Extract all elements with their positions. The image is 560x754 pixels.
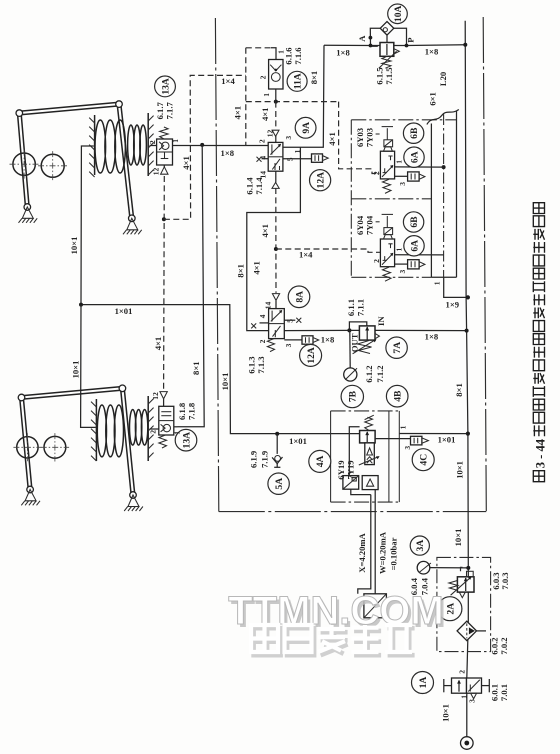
svg-text:10×1: 10×1 (71, 361, 81, 379)
svg-text:7Y04: 7Y04 (364, 215, 374, 235)
svg-text:6.1.9: 6.1.9 (249, 451, 259, 468)
svg-text:7B: 7B (348, 390, 359, 402)
node 1A (412, 672, 434, 694)
node 6A (404, 147, 424, 167)
svg-text:1×8: 1×8 (425, 332, 439, 342)
6Y03 solenoid coil box (384, 140, 393, 147)
node dot pilot junction (162, 217, 166, 221)
node 3A (410, 536, 429, 555)
manifold L20 left line (430, 124, 432, 278)
pilot stub 9A pilot 12 (275, 136, 277, 142)
6Y03 exhaust stub (395, 175, 408, 177)
node dot start of 8x1 down-wire (200, 143, 204, 147)
node 13A second (175, 429, 197, 451)
6Y04 silencer (408, 260, 420, 269)
6Y04 body (380, 239, 394, 267)
9A blocked port stub left (262, 158, 269, 160)
relief valve vent arrow (394, 49, 400, 54)
2A enclosure chain rect (437, 557, 491, 651)
6Y03 solenoid trapezoid (384, 147, 393, 151)
node dot at riser 1x8 (465, 329, 469, 333)
air bellows large (95, 120, 106, 173)
node 4B (386, 385, 408, 407)
node 12A (310, 170, 331, 191)
svg-text:8×1: 8×1 (309, 71, 319, 85)
svg-text:7.1.5: 7.1.5 (384, 67, 394, 84)
svg-text:6B: 6B (409, 216, 420, 228)
node dot at 81/304.6 (79, 303, 83, 307)
4A block inner column line (388, 411, 390, 502)
8A pilot triangle 14 top (272, 294, 279, 301)
pressure regulator 7A body 6.1.1 (359, 326, 375, 340)
svg-text:2: 2 (372, 259, 381, 263)
svg-text:7.1.1: 7.1.1 (355, 299, 365, 316)
4A block frame bottom (331, 501, 400, 503)
4B spring above (365, 417, 373, 430)
wire port5 of 9A to silencer 12A (283, 158, 312, 160)
6Y04 manual override (386, 216, 388, 228)
node 4C (412, 449, 434, 471)
pilot stub 8A pilot line (275, 301, 277, 309)
wire 10x1 inside 4A block to valve 4B (330, 433, 359, 435)
solenoid valve 6Y04 (376, 214, 444, 281)
4A block frame left (330, 411, 332, 502)
6Y03 output wire port1 (395, 166, 444, 168)
figure title pseudo-glyphs (533, 203, 547, 482)
svg-text:7A: 7A (392, 342, 403, 354)
pivot joints (16, 110, 23, 117)
manifold centerline (443, 114, 445, 277)
relief valve 6.1.5 body (380, 43, 394, 57)
svg-text:6A: 6A (409, 151, 420, 163)
node 7B (341, 385, 363, 407)
pilot wire 4x1 right branch down to 6Y03 (339, 102, 381, 174)
wire 8x1 from 1x8 line down to valve 6.1.8 port1 (178, 145, 205, 427)
svg-text:4A: 4A (315, 455, 326, 467)
shuttle output stub (386, 35, 388, 42)
pilot wire junction to dashed rect (164, 75, 246, 219)
svg-text:2: 2 (372, 171, 381, 175)
pilot wire to check valve 11A port1 (246, 47, 271, 49)
svg-text:4×1: 4×1 (233, 106, 243, 120)
svg-text:2: 2 (259, 75, 268, 79)
svg-text:10A: 10A (393, 5, 404, 22)
1A handle bars (443, 679, 445, 692)
svg-text:6A: 6A (409, 240, 420, 252)
svg-text:5A: 5A (274, 478, 285, 490)
svg-text:1: 1 (277, 50, 286, 54)
svg-text:3: 3 (403, 446, 412, 450)
svg-text:OUT: OUT (350, 333, 360, 352)
svg-text:3 - 44: 3 - 44 (534, 438, 548, 468)
svg-text:3: 3 (398, 269, 407, 273)
svg-text:13A: 13A (181, 432, 192, 449)
svg-text:10×1: 10×1 (220, 373, 230, 391)
pressure gauge 6.1.2 (344, 368, 357, 381)
roller 2 (44, 436, 66, 458)
air source symbol (461, 737, 474, 750)
node dot P-side on riser (463, 43, 467, 47)
svg-text:2: 2 (148, 430, 157, 434)
wire top main 1x8 line (324, 44, 465, 47)
8A spring bottom (267, 339, 274, 352)
wire branch down to check valve 6.1.9 (276, 434, 278, 454)
svg-text:7.0.3: 7.0.3 (500, 572, 510, 589)
svg-text:7.1.3: 7.1.3 (256, 356, 266, 373)
svg-text:7Y19: 7Y19 (345, 460, 355, 479)
6Y04 solenoid trapezoid (384, 235, 393, 239)
1A exhaust triangle (471, 693, 477, 699)
6Y03 body (380, 151, 394, 179)
svg-text:3A: 3A (415, 540, 426, 552)
svg-text:11A: 11A (293, 73, 304, 89)
wire gauge 6.0.4 to riser (430, 567, 468, 569)
enclosure chain left (350, 120, 352, 277)
svg-text:4C: 4C (419, 454, 430, 466)
anchor left (22, 207, 33, 218)
4B output wire to 4C (375, 438, 410, 440)
check valve 11A ball (271, 73, 280, 82)
node dot pilot 14 line (274, 247, 278, 251)
9A pilot triangle 12 top (272, 130, 279, 136)
node 10A (388, 4, 408, 24)
svg-text:7Y03: 7Y03 (364, 128, 374, 147)
svg-text:10×1: 10×1 (454, 461, 464, 479)
prop valve 4B lower body (365, 443, 375, 465)
enclosure chain top (351, 119, 456, 121)
svg-text:4×1: 4×1 (260, 224, 270, 238)
node 13A (155, 76, 176, 97)
svg-text:2: 2 (148, 140, 157, 144)
shuttle valve 10A stub P (394, 28, 407, 45)
pilot wire 4x1 to 6Y04 port2 (276, 249, 381, 252)
svg-text:2: 2 (258, 339, 267, 343)
chain border right (483, 17, 486, 512)
svg-text:4B: 4B (393, 390, 404, 402)
svg-text:1: 1 (398, 425, 407, 429)
svg-text:2: 2 (257, 139, 266, 143)
regulator exhaust triangle (459, 592, 465, 598)
pressure gauge 6.0.4 (417, 561, 430, 574)
node 6A second (404, 236, 424, 256)
13A-1 pilot triangle 12 (161, 167, 168, 174)
shuttle valve 10A body (380, 22, 394, 36)
svg-text:4: 4 (258, 314, 267, 318)
svg-text:1: 1 (433, 281, 442, 285)
svg-text:1: 1 (459, 695, 468, 699)
8A internals (271, 311, 282, 322)
svg-text:1: 1 (395, 247, 404, 251)
converter box X/W (364, 594, 387, 618)
regulator pilot dash (461, 567, 467, 571)
wire boxes bottom U (351, 489, 371, 494)
roller 1 (13, 153, 35, 175)
wire manifold L20 output to riser (444, 277, 468, 297)
node 7A (386, 337, 407, 358)
check valve 6.1.9 stub (276, 464, 278, 468)
node dot riser L20 (466, 295, 470, 299)
anchor right (128, 495, 139, 507)
shutoff valve 1A body (452, 678, 467, 693)
relief valve adjust arrow (379, 51, 397, 68)
6Y03 silencer (408, 172, 420, 181)
node 6B second (403, 212, 423, 232)
pilot stub 13A-2 triangle to valve (163, 399, 165, 406)
svg-text:8×1: 8×1 (236, 264, 246, 278)
lever right bar (124, 388, 135, 495)
node 2A (438, 597, 462, 621)
lever left bar (21, 113, 29, 207)
svg-text:5: 5 (286, 157, 295, 161)
13A-2 port stubs (150, 428, 159, 430)
svg-text:12: 12 (151, 168, 160, 176)
6Y03 internals (382, 166, 393, 177)
pilot bus 4x1 below 11A (246, 101, 339, 103)
regulator 6.0.3 body (457, 577, 474, 592)
svg-text:5: 5 (286, 319, 295, 323)
13A-1 exhaust T (164, 153, 166, 159)
relief valve spring (382, 56, 391, 68)
wire main supply riser 10x1 (465, 21, 468, 621)
svg-text:7.0.2: 7.0.2 (499, 637, 509, 654)
node dot riser gauge tap (466, 566, 470, 570)
roller 1 (17, 437, 38, 458)
filter 2A diamond (457, 621, 476, 640)
pilot wire 13A-1 to 13A-2 vertical 4x1 (163, 176, 166, 390)
pilot stub 11A port2 down (275, 89, 277, 102)
svg-text:=0.10bar: =0.10bar (388, 537, 398, 570)
svg-text:10×1: 10×1 (69, 237, 79, 255)
svg-text:3: 3 (467, 699, 476, 703)
prop valve 4B upper body (360, 431, 376, 443)
wire 8x1 branch from top line down to valve 9A (283, 45, 324, 147)
13A-2 top marks (161, 411, 171, 413)
svg-text:9A: 9A (301, 122, 312, 134)
svg-text:6.1.2: 6.1.2 (364, 365, 374, 382)
watermark chinese pseudo-glyphs (254, 628, 415, 655)
wire 9A exhaust down to 8A: vertical px300 (247, 147, 301, 330)
svg-text:1×8: 1×8 (336, 47, 350, 57)
6Y04 output wire port1 (395, 254, 444, 256)
wire regulator pilot loop (349, 322, 366, 331)
13A-2 spring below (159, 435, 167, 448)
13A-2 check seat and ball (161, 424, 166, 431)
4A block frame top (331, 410, 400, 412)
check valve 6.1.9 ball (275, 456, 281, 462)
valve 8A body 6.1.3 (269, 309, 285, 339)
svg-text:13A: 13A (160, 78, 171, 95)
valve 13A-2 body 6.1.8 (159, 406, 174, 435)
lever left bar (23, 397, 32, 489)
svg-text:10×1: 10×1 (453, 529, 463, 547)
silencer 12A arrow (323, 156, 329, 161)
svg-text:7.1.6: 7.1.6 (293, 47, 303, 65)
air bellows small (130, 410, 136, 446)
6Y04 internals (382, 254, 393, 265)
svg-text:4×1: 4×1 (260, 108, 270, 122)
svg-text:1×8: 1×8 (425, 47, 439, 57)
wire 10x1 distribution: bellows feed 1 (81, 146, 330, 434)
svg-text:1A: 1A (418, 677, 429, 689)
7A adjust arrow (353, 340, 376, 354)
wire 10x1 from 4A block to riser (399, 433, 468, 435)
svg-text:12A: 12A (306, 347, 317, 364)
shuttle valve 10A stub A (370, 28, 380, 45)
amplifier box 4B (362, 476, 378, 490)
svg-text:8×1: 8×1 (454, 383, 464, 397)
svg-text:1: 1 (293, 149, 302, 153)
svg-text:W=0.20mA: W=0.20mA (378, 531, 388, 574)
regulator 6.0.3 secondary box (467, 571, 474, 577)
7A vent nub (375, 333, 379, 338)
svg-text:14: 14 (258, 171, 267, 179)
svg-text:1×8: 1×8 (221, 148, 235, 158)
wire pair down to converter (358, 495, 371, 594)
node dot 6Y03 output (442, 165, 446, 169)
wall left hatched (94, 115, 96, 175)
8A exhaust stub (284, 339, 302, 341)
manifold break wavy top (427, 110, 459, 125)
node 8A (288, 286, 310, 308)
svg-text:1×8: 1×8 (321, 335, 335, 345)
6Y04 spring (383, 267, 392, 281)
chain border left (215, 18, 218, 512)
node 5A (268, 473, 289, 494)
svg-text:4×1: 4×1 (251, 261, 261, 275)
6Y03 spring (383, 179, 392, 193)
6Y04 solenoid coil box (384, 228, 393, 235)
svg-text:IN: IN (376, 316, 386, 326)
svg-text:X=4.20mA: X=4.20mA (357, 532, 367, 572)
node dot riser 10x1 (466, 432, 470, 436)
check valve 6.1.9 seat (272, 457, 282, 464)
svg-text:12: 12 (265, 130, 274, 138)
4B lower internals triangle (367, 448, 373, 455)
anchor left (25, 490, 36, 501)
svg-text:1×01: 1×01 (289, 436, 307, 446)
solenoid valve 6Y03 (376, 127, 444, 194)
anchor right (127, 218, 138, 230)
stub 11A port1 (271, 48, 276, 60)
6Y04 exhaust stub (395, 263, 408, 265)
node 6B (403, 123, 423, 143)
enclosure chain bottom (351, 276, 431, 278)
svg-text:3: 3 (284, 343, 293, 347)
svg-text:4×1: 4×1 (153, 337, 163, 351)
node A dots (369, 36, 373, 40)
silencer 12A2 (8A exhaust) body (302, 336, 313, 344)
13A-2 pilot triangle 12 (160, 392, 167, 399)
6Y03 manual override (386, 128, 388, 140)
pilot wire 9A pilot14 down to 8A pilot14 (275, 188, 277, 293)
valve 9A body 6.1.4 (268, 142, 283, 171)
9A internals bottom section (272, 159, 280, 170)
lever top bar (20, 102, 120, 111)
svg-text:P: P (405, 37, 415, 42)
manifold L20 right line (456, 111, 458, 278)
wall right hatched (147, 396, 149, 461)
13A-1 spring above (160, 127, 168, 139)
lever top bar (22, 387, 123, 396)
svg-text:A: A (357, 35, 367, 42)
node 11A (287, 71, 307, 91)
9A blocked x (257, 157, 262, 162)
svg-text:4: 4 (258, 156, 267, 160)
svg-text:1: 1 (395, 160, 404, 164)
regulator adjust arrow (451, 577, 471, 595)
node dot regulator OUT junction (347, 328, 351, 332)
wall right hatched (147, 113, 149, 176)
9A pilot triangle 14 bottom (272, 182, 279, 188)
prop valve 4B pilot line (349, 427, 359, 476)
svg-text:3: 3 (284, 136, 293, 140)
svg-text:1×4: 1×4 (221, 76, 235, 86)
wire bellows feed 2 (81, 305, 96, 428)
air bellows small (128, 125, 135, 165)
wall left hatched (95, 399, 97, 461)
svg-text:1×9: 1×9 (446, 300, 460, 310)
svg-text:12: 12 (151, 392, 160, 400)
relief valve pilot dash (372, 45, 380, 47)
wire riser lower to valve 1A and source (467, 621, 469, 737)
8A blocked stubs and x marks (260, 322, 269, 324)
pilot wire 4x1 vertical tap on 1x8 line (245, 48, 247, 146)
svg-text:8×1: 8×1 (191, 361, 201, 375)
node dot 5A branch (275, 432, 279, 436)
solenoid box P 4B (343, 476, 359, 490)
4A block frame right (398, 411, 400, 502)
svg-text:1: 1 (171, 139, 180, 143)
svg-text:3: 3 (398, 182, 407, 186)
pilot stub 9A pilot 14 (275, 171, 277, 182)
wire down to gauge 6.1.2 (349, 330, 351, 367)
node 12A second (300, 344, 322, 366)
svg-text:12A: 12A (316, 172, 327, 189)
svg-text:1: 1 (172, 431, 181, 435)
9A internals top section arrows (270, 144, 280, 154)
svg-text:2A: 2A (445, 603, 456, 615)
svg-text:2: 2 (458, 670, 467, 674)
4B adjust arrow (359, 457, 379, 465)
svg-text:7.1.2: 7.1.2 (375, 365, 385, 382)
air bellows large (97, 405, 106, 457)
node 9A (295, 117, 316, 138)
check valve 11A body (269, 60, 283, 90)
wire main 1x8 middle line 8A to regulator 7A to riser (284, 329, 359, 331)
node dot bus at 11A (274, 100, 278, 104)
svg-text:L20: L20 (438, 72, 448, 86)
svg-text:7.1.8: 7.1.8 (186, 402, 196, 420)
wire 1x8 from valve 13A-1 to valve 9A port2 (177, 145, 268, 147)
chain border bottom (219, 511, 487, 513)
svg-text:4×1: 4×1 (181, 156, 191, 170)
svg-text:7.1.7: 7.1.7 (165, 102, 175, 120)
7A spring below (358, 341, 372, 354)
svg-text:7.1.9: 7.1.9 (260, 451, 270, 468)
svg-text:1×01: 1×01 (438, 434, 456, 444)
svg-text:14: 14 (264, 302, 273, 310)
13A-1 port stubs (150, 145, 157, 147)
svg-text:4×1: 4×1 (327, 132, 337, 146)
filter side stub (477, 630, 487, 632)
pivot joints (18, 394, 25, 401)
svg-text:1×4: 1×4 (299, 249, 313, 259)
svg-text:7.0.1: 7.0.1 (499, 684, 509, 701)
silencer 12A (9A exhaust) body (312, 154, 323, 162)
manifold bottom (431, 276, 456, 278)
svg-text:1×01: 1×01 (115, 306, 133, 316)
silencer 4C (411, 436, 422, 445)
